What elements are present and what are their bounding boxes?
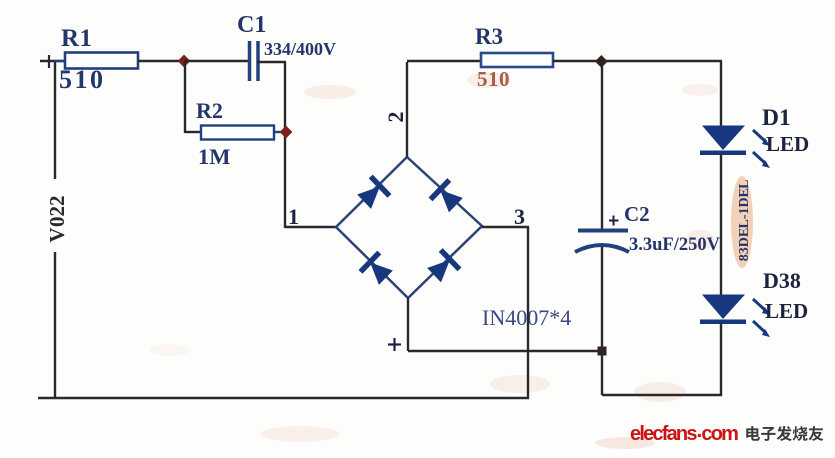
label node 3	[514, 204, 525, 229]
label R1	[61, 25, 93, 52]
node: junction of R1/C1/R2 (red dot)	[178, 55, 191, 68]
svg-text:D: D	[737, 197, 752, 207]
svg-text:2: 2	[45, 206, 69, 217]
svg-text:1: 1	[288, 204, 299, 229]
wire: bridge top vertex to top rail (node 2)	[406, 62, 408, 157]
label R2 value 1M	[198, 144, 231, 169]
svg-text:L: L	[737, 219, 752, 228]
svg-text:E: E	[737, 188, 752, 197]
wire: bridge right vertex (node 3) to corner and down to bottom rail	[482, 227, 529, 398]
svg-text:3.3uF/250V: 3.3uF/250V	[629, 235, 721, 255]
resistor R3	[481, 53, 601, 67]
svg-text:2: 2	[45, 196, 69, 207]
svg-text:LED: LED	[765, 299, 808, 323]
wire: top rail from node 2 to R3	[407, 60, 481, 62]
svg-text:R2: R2	[196, 98, 223, 123]
wire: bridge bottom vertex down and to bottom node	[408, 298, 602, 351]
label: 220V source	[45, 196, 69, 243]
svg-text:510: 510	[477, 67, 510, 91]
svg-text:1: 1	[737, 208, 752, 215]
wire: node A to C1 left plate	[184, 60, 248, 62]
svg-text:C1: C1	[237, 12, 266, 38]
diode D-d (bridge bottom-right, points to right AC vertex)	[425, 248, 462, 285]
wire: D38 cathode down to bottom-right rail	[720, 323, 722, 396]
svg-text:V: V	[45, 228, 69, 243]
wire: AC input stub top-left	[40, 55, 65, 68]
svg-text:D38: D38	[763, 268, 801, 293]
svg-text:LED: LED	[766, 132, 809, 156]
svg-text:3: 3	[737, 247, 752, 254]
wire: C2 bottom plate down to bottom node	[601, 247, 603, 351]
bridge rectifier frame (diamond)	[336, 157, 482, 298]
label C1	[237, 12, 266, 38]
label D38 LED	[765, 299, 808, 323]
svg-text:IN4007*4: IN4007*4	[482, 305, 571, 330]
svg-text:2: 2	[383, 112, 408, 123]
label R3 value 510	[477, 67, 510, 91]
wire: left vertical lower segment	[54, 252, 56, 398]
node: top rail junction above C2	[595, 55, 608, 68]
svg-text:-: -	[737, 214, 752, 219]
capacitor C2 (electrolytic)	[575, 231, 629, 253]
wire: top rail node down to C2 + plate	[601, 61, 603, 229]
label bridge minus terminal +	[388, 338, 401, 351]
label D1	[762, 105, 791, 131]
label node 2	[383, 112, 408, 123]
svg-text:D: D	[737, 237, 752, 247]
label D38	[763, 268, 801, 293]
wire: top rail to top-right corner and down to D1	[601, 61, 722, 126]
node: bottom junction of C2 / bridge minus (square dot)	[598, 347, 607, 356]
diode D-a (bridge top-left, points to + top vertex)	[355, 175, 392, 212]
capacitor C1	[250, 41, 259, 81]
wire: node 1 horizontal into bridge left vertex	[285, 226, 336, 228]
label D1 LED	[766, 132, 809, 156]
label R1 value 510	[59, 65, 106, 94]
wire: left vertical upper segment	[54, 61, 56, 179]
svg-text:D1: D1	[762, 105, 791, 131]
svg-text:R1: R1	[61, 25, 93, 52]
svg-text:C2: C2	[624, 202, 650, 226]
resistor R1	[54, 53, 184, 69]
svg-text:E: E	[737, 228, 752, 237]
label R2	[196, 98, 223, 123]
label bridge diodes IN4007*4	[482, 305, 571, 330]
wire: C1 right plate to vertical, down to node 1	[257, 62, 286, 228]
svg-text:334/400V: 334/400V	[264, 39, 336, 59]
LED D1	[700, 126, 770, 169]
电子发烧友 text	[746, 426, 823, 441]
label C2 polarity +	[609, 216, 619, 226]
label R3	[475, 24, 503, 49]
elecfans.com logo	[630, 420, 738, 445]
svg-text:0: 0	[45, 217, 69, 228]
resistor R2	[201, 126, 285, 140]
diode D-c (bridge bottom-left, points to left AC vertex)	[359, 251, 396, 288]
wire: node A down to R2 left	[185, 61, 201, 133]
svg-text:elecfans.com: elecfans.com	[630, 420, 738, 445]
label C2 value 3.3uF/250V	[629, 235, 721, 255]
svg-text:3: 3	[514, 204, 525, 229]
wire: LED chain between D1 and D38	[720, 154, 722, 295]
wire: bottom rail left	[38, 397, 529, 399]
diode D-b (bridge top-right, points to + top vertex)	[429, 178, 466, 215]
svg-text:8: 8	[737, 254, 752, 261]
node: junction of R2/C1 branch (red dot)	[280, 126, 293, 139]
label C1 value 334/400V	[264, 39, 336, 59]
svg-text:510: 510	[59, 65, 106, 94]
label C2	[624, 202, 650, 226]
label node 1	[288, 204, 299, 229]
LED D38	[700, 295, 770, 338]
svg-text:L: L	[737, 180, 752, 189]
wire: bottom node down and right rail to LED chain	[602, 351, 722, 395]
svg-text:1M: 1M	[198, 144, 231, 169]
svg-text:R3: R3	[475, 24, 503, 49]
label LED1-LED38 (vertical)	[737, 180, 752, 262]
